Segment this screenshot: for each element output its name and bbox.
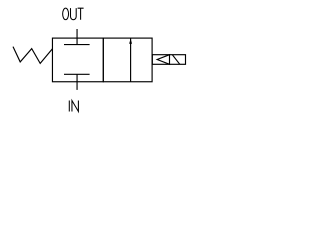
spring (return spring, left side) bbox=[13, 47, 52, 64]
wire IN port stem bbox=[76, 74, 78, 90]
valve body right square (open position) bbox=[103, 38, 152, 82]
node OUT seat bar (top T) bbox=[64, 44, 90, 46]
solenoid armature triangle bbox=[157, 55, 169, 65]
label OUT bbox=[63, 8, 84, 20]
node flow arrowhead bbox=[129, 39, 132, 44]
valve body left square (closed position) bbox=[52, 38, 103, 82]
label IN bbox=[69, 101, 78, 112]
solenoid coil diagonal bbox=[172, 55, 180, 65]
wire flow path in right square bbox=[130, 38, 132, 82]
solenoid U1 coil box bbox=[152, 55, 185, 65]
wire OUT port stem bbox=[76, 29, 78, 45]
node IN seat bar (bottom T) bbox=[64, 73, 90, 75]
